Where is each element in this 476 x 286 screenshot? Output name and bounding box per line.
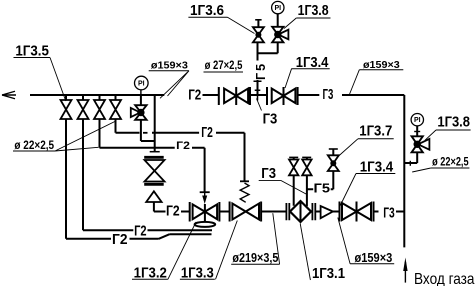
- svg-text:1Г3.2: 1Г3.2: [134, 266, 167, 282]
- svg-text:1Г3.8: 1Г3.8: [298, 3, 329, 19]
- svg-text:1Г3.3: 1Г3.3: [181, 266, 214, 282]
- svg-text:Г2: Г2: [176, 140, 190, 152]
- svg-text:Г3: Г3: [261, 166, 276, 182]
- svg-text:Г2: Г2: [112, 232, 128, 248]
- svg-text:Г2: Г2: [201, 125, 213, 141]
- svg-text:ø159×3: ø159×3: [151, 60, 188, 72]
- svg-text:Г3: Г3: [323, 87, 334, 103]
- svg-text:PI: PI: [138, 81, 145, 88]
- svg-text:ø159×3: ø159×3: [355, 251, 393, 265]
- svg-text:ø219×3,5: ø219×3,5: [232, 251, 278, 265]
- svg-text:ø 27×2,5: ø 27×2,5: [205, 60, 243, 72]
- svg-text:1Г3.7: 1Г3.7: [359, 124, 392, 140]
- svg-text:PI: PI: [274, 5, 281, 12]
- svg-text:1Г3.5: 1Г3.5: [15, 44, 49, 60]
- svg-text:Г3: Г3: [383, 206, 395, 222]
- svg-text:Г5: Г5: [314, 181, 331, 195]
- svg-text:Г2: Г2: [134, 224, 147, 240]
- svg-text:ø 22×2,5: ø 22×2,5: [14, 140, 54, 152]
- svg-text:Г5: Г5: [254, 62, 268, 80]
- svg-text:1Г3.4: 1Г3.4: [360, 159, 393, 175]
- svg-text:ø 22×2,5: ø 22×2,5: [432, 157, 469, 169]
- svg-text:Г3: Г3: [263, 112, 278, 128]
- svg-text:Вход газа: Вход газа: [414, 271, 475, 286]
- svg-text:ø159×3: ø159×3: [363, 59, 400, 71]
- svg-text:1Г3.1: 1Г3.1: [312, 266, 345, 282]
- svg-text:Г2: Г2: [188, 88, 201, 104]
- svg-text:1Г3.8: 1Г3.8: [437, 115, 470, 131]
- svg-text:1Г3.6: 1Г3.6: [190, 3, 224, 19]
- svg-text:Г2: Г2: [166, 204, 180, 220]
- svg-text:1Г3.4: 1Г3.4: [296, 55, 329, 71]
- svg-text:PI: PI: [414, 117, 421, 124]
